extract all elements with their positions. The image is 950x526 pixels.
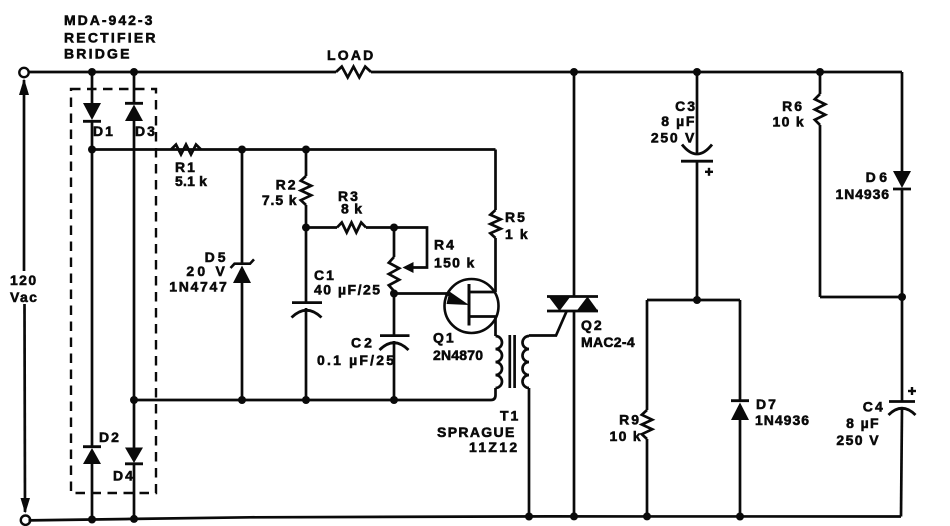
wire: D1 cathode to + node: [91, 121, 94, 150]
transformer T1 primary winding: [496, 336, 503, 388]
polarity + of C3: [705, 171, 713, 173]
terminal: AC input top-left: [19, 68, 28, 77]
wire: R5 to Q1 base1: [494, 238, 497, 292]
svg-text:2N4870: 2N4870: [433, 347, 483, 363]
wire: R3 to R4 top: [366, 226, 394, 229]
wire: top rail right of LOAD: [371, 71, 902, 74]
svg-text:8 µF: 8 µF: [661, 113, 696, 129]
svg-text:150 k: 150 k: [434, 255, 476, 271]
junction dot D2 bottom: [88, 516, 96, 524]
wire: left 120 Vac line lower segment: [23, 304, 26, 512]
wire: + node down to D2: [91, 150, 94, 448]
svg-text:1N4936: 1N4936: [836, 186, 890, 202]
resistor R4: [393, 228, 396, 258]
transformer T1 core: [508, 335, 511, 388]
junction dot C3 bottom: [693, 296, 701, 304]
arrowhead up on 120 Vac line: [19, 79, 29, 96]
svg-text:10 k: 10 k: [610, 428, 642, 444]
junction dot C2 bottom: [390, 396, 398, 404]
svg-text:MDA-942-3: MDA-942-3: [64, 12, 154, 28]
svg-text:LOAD: LOAD: [327, 47, 375, 63]
wire: R9 to bottom rail: [646, 439, 649, 516]
wire: + rail corner down to R5: [494, 150, 497, 211]
svg-text:T1: T1: [500, 408, 520, 424]
junction dot R4 top: [390, 224, 398, 232]
diode D6: [893, 171, 911, 188]
junction dot R4 bottom: [390, 290, 398, 298]
svg-text:D2: D2: [99, 429, 121, 445]
capacitor C3: [682, 145, 712, 155]
svg-text:R9: R9: [619, 412, 641, 428]
wire: R6 down: [819, 125, 822, 297]
svg-text:Q1: Q1: [433, 330, 456, 346]
svg-text:R6: R6: [782, 98, 804, 114]
diode D2: [83, 445, 101, 448]
wire: C4 bottom lead: [901, 408, 902, 517]
svg-text:D1: D1: [93, 123, 115, 139]
wire: left 120 Vac line upper segment: [23, 80, 26, 271]
svg-text:C4: C4: [863, 399, 885, 415]
wire: Q1 base2 to T1: [494, 317, 497, 337]
resistor LOAD: [336, 67, 371, 78]
wire: Q2 to bottom rail: [573, 311, 576, 516]
wire: D4 cathode to bottom rail: [133, 464, 136, 519]
wire: node to R3: [306, 226, 337, 229]
wire: top rail left of LOAD: [29, 71, 336, 74]
wire: Q2 anode from top rail: [573, 72, 576, 297]
junction dot Q2 bottom: [570, 512, 578, 520]
wire: R6 bottom across to D6 node: [820, 296, 902, 299]
junction dot D5 bottom: [238, 396, 246, 404]
wire: bottom rail: [29, 516, 902, 520]
junction dot D6 bottom node: [898, 293, 906, 301]
dashed outline MDA-942-3 rectifier bridge: [71, 89, 156, 493]
junction dot R2 bottom node: [302, 224, 310, 232]
wire: R6 from top rail: [819, 72, 822, 94]
wire: top rail corner down to D6: [901, 72, 904, 171]
svg-text:R2: R2: [276, 177, 298, 193]
diode D1: [83, 103, 101, 120]
wire: C3 bottom lead: [696, 162, 699, 300]
wire: D7 anode to bottom rail: [739, 420, 742, 517]
wire: D2 anode to bottom rail: [91, 464, 94, 520]
wire: C3 from top rail: [696, 72, 699, 154]
svg-text:40 µF/25: 40 µF/25: [314, 282, 382, 298]
junction dot R9 bottom: [643, 512, 651, 520]
diode D4: [125, 448, 143, 464]
junction dot bridge common node: [130, 396, 138, 404]
svg-text:20 V: 20 V: [186, 263, 228, 279]
junction dot C1 bottom: [302, 396, 310, 404]
svg-text:7.5 k: 7.5 k: [262, 192, 298, 208]
svg-text:1N4936: 1N4936: [755, 412, 810, 428]
wire: R2 branch from + rail: [305, 150, 308, 177]
junction dot D7 bottom: [736, 513, 744, 521]
wire: D1 column from top rail: [91, 72, 94, 103]
transformer T1 secondary winding: [523, 336, 529, 388]
diode D3: [125, 102, 143, 105]
svg-text:C2: C2: [351, 335, 375, 351]
wire: R4 wiper tap: [394, 228, 427, 268]
wire: D5 branch from + rail: [241, 150, 244, 265]
wire: D6 cathode down: [901, 189, 904, 297]
junction dot + node: [88, 146, 96, 154]
terminal: AC input bottom-left: [21, 516, 30, 525]
svg-text:R4: R4: [434, 237, 456, 253]
wire: C4 top lead: [901, 297, 904, 401]
junction dot R2 top: [302, 146, 310, 154]
diode D7: [731, 399, 749, 402]
resistor R6: [815, 94, 825, 125]
wire: C1 top lead: [305, 228, 308, 303]
svg-text:120: 120: [10, 272, 38, 288]
svg-text:SPRAGUE: SPRAGUE: [437, 424, 516, 440]
svg-text:C3: C3: [675, 98, 697, 114]
svg-text:D7: D7: [756, 396, 778, 412]
polarity + of C4: [908, 390, 916, 392]
svg-text:8 µF: 8 µF: [846, 415, 880, 431]
svg-text:1 k: 1 k: [505, 226, 529, 242]
wire: C2 bottom lead: [393, 341, 396, 400]
wire: T1 secondary top to Q2 gate: [529, 312, 567, 336]
wire: R9 column upper: [646, 300, 649, 410]
triac Q2 MAC2-4: [547, 295, 598, 298]
wire: R9 top rail y300: [647, 299, 740, 302]
svg-text:R5: R5: [505, 209, 527, 225]
wire: T1 secondary bottom to bottom rail: [528, 388, 531, 517]
svg-text:D6: D6: [866, 169, 891, 185]
svg-text:D4: D4: [113, 468, 135, 484]
capacitor C2: [380, 334, 410, 337]
junction dot T1 bottom: [525, 513, 533, 521]
svg-text:8 k: 8 k: [341, 201, 363, 217]
wire: D5 anode to common rail: [241, 283, 244, 400]
junction dot D4 bottom: [130, 515, 138, 523]
svg-text:Vac: Vac: [10, 289, 38, 305]
junction dot D1 top: [88, 68, 96, 76]
resistor R1: [171, 145, 201, 155]
junction dot C3 top: [693, 68, 701, 76]
zener diode D5: [231, 259, 255, 268]
resistor R3: [337, 223, 366, 233]
svg-text:5.1 k: 5.1 k: [175, 173, 207, 189]
wire: + rail y150: [92, 148, 496, 151]
junction dot D3 top: [130, 68, 138, 76]
capacitor C1: [292, 301, 322, 304]
wire: D7 column upper: [739, 300, 742, 401]
svg-text:11Z12: 11Z12: [469, 439, 519, 455]
junction dot R6 top: [816, 68, 824, 76]
svg-text:D3: D3: [135, 123, 157, 139]
wire: C2 top lead: [393, 294, 396, 336]
wire: R2 bottom to node: [305, 205, 308, 228]
wire: R4 bottom to Q1 emitter: [394, 292, 449, 295]
svg-text:BRIDGE: BRIDGE: [64, 46, 132, 62]
svg-text:MAC2-4: MAC2-4: [581, 334, 635, 350]
svg-text:1N4747: 1N4747: [169, 279, 228, 295]
resistor R9: [642, 410, 652, 439]
wire: D3 column from top rail: [133, 72, 136, 104]
arrowhead down on 120 Vac line: [21, 498, 31, 514]
junction dot Q2 top: [570, 68, 578, 76]
junction dot D5 top: [238, 146, 246, 154]
capacitor C4: [889, 400, 915, 403]
svg-text:250 V: 250 V: [836, 432, 880, 448]
svg-text:Q2: Q2: [581, 317, 604, 333]
svg-text:0.1 µF/25: 0.1 µF/25: [317, 352, 396, 368]
svg-text:10 k: 10 k: [773, 114, 805, 130]
transistor Q1 2N4870 (UJT): [445, 279, 499, 333]
arrowhead R4 wiper: [403, 262, 414, 273]
wire: D3 anode down to common node: [133, 121, 136, 448]
wire: common rail y400: [134, 388, 496, 400]
resistor R5: [490, 210, 500, 238]
svg-text:250 V: 250 V: [651, 130, 696, 146]
svg-text:RECTIFIER: RECTIFIER: [64, 30, 158, 46]
resistor R2: [301, 176, 311, 205]
wire: C1 bottom lead: [305, 308, 308, 400]
